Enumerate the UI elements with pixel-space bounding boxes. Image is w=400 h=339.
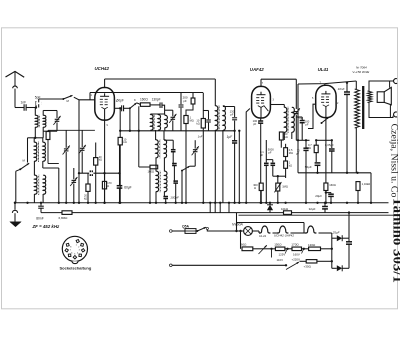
svg-text:pF: pF <box>268 150 271 154</box>
svg-text:1nF: 1nF <box>21 100 27 104</box>
svg-text:160Ω: 160Ω <box>148 169 155 173</box>
svg-text:170Ω: 170Ω <box>291 243 299 247</box>
oscillator grid line <box>48 129 95 131</box>
svg-text:1nF: 1nF <box>198 135 203 139</box>
rail screen supply <box>90 92 203 94</box>
wire K arm to resistor <box>137 103 141 105</box>
trimmer padder <box>194 140 196 148</box>
svg-text:kΩ: kΩ <box>99 158 102 162</box>
svg-text:UL41: UL41 <box>259 234 267 238</box>
svg-text:pF: pF <box>253 122 256 126</box>
AVC line <box>120 130 234 132</box>
coil L3 LW <box>34 175 37 194</box>
rail top down to IF2 <box>214 79 216 106</box>
rectifier diode upper <box>332 237 337 239</box>
wire UAF42 top to rail <box>260 79 262 86</box>
capacitor 100pF detector <box>260 118 262 121</box>
rectifier branch left <box>331 233 333 268</box>
speaker terminal C top <box>394 79 398 84</box>
antenna coil L1 primary-secondary <box>35 115 38 127</box>
svg-text:UCH42: UCH42 <box>95 66 110 71</box>
heater UL41 <box>259 226 270 233</box>
rail UL41 anode <box>298 81 356 84</box>
capacitor 32uF <box>324 203 326 207</box>
svg-text:MΩ: MΩ <box>190 118 194 122</box>
capacitor 5pF <box>35 101 37 108</box>
tap trimmer <box>270 248 272 250</box>
svg-text:MΩ: MΩ <box>307 146 311 150</box>
svg-text:pF: pF <box>305 122 308 126</box>
svg-text:ZF = 452 kHz: ZF = 452 kHz <box>32 224 61 229</box>
speaker terminal C bottom <box>394 112 398 117</box>
resistor 1MOhm <box>184 116 188 124</box>
svg-text:60μF: 60μF <box>124 185 131 189</box>
IF1 third winding <box>165 115 168 127</box>
wire speaker return <box>381 127 383 203</box>
resistor 150 Ohm <box>275 247 285 251</box>
node coil bottom <box>34 137 36 139</box>
svg-text:kΩ: kΩ <box>123 140 126 144</box>
trimmer capacitor T2 oscillator <box>65 130 67 148</box>
svg-text:70Ω: 70Ω <box>298 116 303 120</box>
svg-text:10kΩ: 10kΩ <box>281 207 289 211</box>
IF transformer 2 <box>215 106 218 130</box>
svg-text:50μF: 50μF <box>305 165 312 169</box>
svg-text:kΩ: kΩ <box>84 196 87 200</box>
svg-text:K: K <box>134 98 136 102</box>
supply line third rail <box>239 214 397 216</box>
wire K down to AVC <box>129 108 131 131</box>
B2 bus <box>41 212 389 214</box>
svg-text:kΩ: kΩ <box>285 135 288 139</box>
svg-text:MΩ: MΩ <box>289 151 293 155</box>
resistor 30 Ohm surge <box>300 260 307 262</box>
svg-text:kΩ: kΩ <box>196 121 199 125</box>
resistor 170 Ohm cathode <box>104 173 106 181</box>
svg-text:25μF: 25μF <box>332 231 340 235</box>
svg-text:50pF: 50pF <box>117 98 124 102</box>
variable dropper <box>253 248 262 250</box>
heater rail top <box>236 213 238 231</box>
mains line lower <box>172 264 286 266</box>
svg-text:80nF: 80nF <box>36 217 44 221</box>
switch below UL41 <box>321 122 323 124</box>
resistor 10kOhm AVC2 <box>202 93 204 119</box>
svg-text:130pF: 130pF <box>152 98 161 102</box>
tube UL41 <box>316 85 336 117</box>
reservoir capacitor 25uF <box>348 213 350 239</box>
wire heater link 2 <box>291 232 306 234</box>
oscillator coil upper <box>156 140 159 158</box>
svg-text:μF: μF <box>260 153 264 157</box>
svg-text:1: 1 <box>91 94 93 97</box>
svg-text:1,04kΩ: 1,04kΩ <box>362 182 371 186</box>
svg-text:125V: 125V <box>279 253 286 257</box>
rectifier diode lower <box>332 267 337 269</box>
resistor 20kOhm AVC <box>87 173 89 184</box>
wire heater to rectifier <box>319 232 332 234</box>
resistor 160 Ohm cathode UL41 <box>324 183 328 191</box>
svg-text:UL41: UL41 <box>318 67 329 72</box>
svg-text:20μF: 20μF <box>315 194 322 198</box>
svg-text:32μF: 32μF <box>309 207 316 211</box>
wire UAF42 cathode down <box>245 118 247 203</box>
svg-text:10nF: 10nF <box>338 87 345 91</box>
svg-text:2: 2 <box>337 102 339 105</box>
svg-text:Q5A: Q5A <box>182 224 190 228</box>
wire bus links <box>209 203 211 213</box>
wire band switch to ground bus <box>15 171 17 203</box>
trimmer IF1 <box>172 110 174 116</box>
resistor 0.7MOhm <box>315 140 317 145</box>
wire aux vertical <box>58 168 60 203</box>
switch K <box>129 107 131 109</box>
output transformer core <box>362 86 364 129</box>
mains terminal lower <box>170 264 173 267</box>
wire grid line to switch <box>39 98 63 100</box>
svg-text:3: 3 <box>273 98 275 101</box>
svg-text:130Ω: 130Ω <box>308 243 316 247</box>
output transformer primary <box>355 89 360 128</box>
wire UL41 cathode chain <box>325 118 327 184</box>
tube socket diagram <box>62 236 87 261</box>
coil L2 MW <box>34 142 37 161</box>
loudspeaker <box>377 92 384 103</box>
svg-text:V–150 W/2E: V–150 W/2E <box>352 70 370 74</box>
resistor 10kOhm UCH42 <box>119 108 121 137</box>
wire oscillator vertical <box>78 100 80 173</box>
svg-text:pF: pF <box>183 99 187 103</box>
svg-text:150Ω: 150Ω <box>274 243 282 247</box>
rail anode supply top <box>105 78 216 80</box>
capacitor 1nF antenna series <box>15 107 24 109</box>
IF transformer 1 <box>150 115 153 131</box>
svg-text:+30Ω: +30Ω <box>304 265 312 269</box>
rectifier diode to bus <box>269 203 271 205</box>
tap 160V <box>303 248 305 250</box>
wire to terminal bottom <box>390 116 393 118</box>
svg-text:Tamino 303/1: Tamino 303/1 <box>389 197 400 283</box>
capacitor 50pF plate <box>114 107 121 109</box>
band switch M1 <box>27 138 29 163</box>
resistor 6.8MOhm bus <box>62 211 72 215</box>
ground symbol <box>14 203 16 210</box>
wire to terminal top <box>390 80 394 82</box>
mains terminal upper <box>170 230 173 233</box>
wire UAF42 grid return <box>238 131 240 203</box>
resistor 20kOhm oscillator grid <box>95 143 97 158</box>
grid stopper UL41 <box>308 104 316 128</box>
node antenna-coil junction <box>35 106 37 108</box>
svg-text:UAF42: UAF42 <box>250 67 264 72</box>
svg-text:160V: 160V <box>293 252 300 256</box>
resistor 160 Ohm <box>140 103 150 107</box>
wire heater link <box>273 232 278 234</box>
wire UL41 plate top <box>324 84 326 86</box>
svg-text:100pF: 100pF <box>170 195 179 199</box>
capacitor 50pF grid UAF42 <box>208 111 210 120</box>
resistor 160 Ohm osc <box>150 165 158 169</box>
tube UCH42 <box>95 88 115 121</box>
capacitor padding osc 2 <box>172 163 177 165</box>
svg-text:110V: 110V <box>277 258 284 262</box>
resistor 170 Ohm <box>292 247 302 251</box>
svg-text:M: M <box>67 99 70 103</box>
svg-text:6,8MΩ: 6,8MΩ <box>59 216 69 220</box>
trimmer capacitor antenna <box>56 111 58 119</box>
oscillator coil lower <box>156 171 159 191</box>
capacitor 130pF IF1 <box>159 102 161 108</box>
heater UCH42 <box>277 226 288 233</box>
wire secondary bottom <box>369 103 390 118</box>
trimmer capacitor T3 <box>81 130 83 147</box>
chassis bus <box>15 202 389 204</box>
switch M2 antenna <box>62 98 64 100</box>
wire switch to UCH42 grid <box>74 97 95 100</box>
resistor 60 Ohm dropper <box>240 231 242 249</box>
capacitor 50uF cathode <box>315 153 317 162</box>
tap 125V <box>286 248 288 250</box>
svg-text:5: 5 <box>312 97 314 100</box>
wire UCH42 cathode down <box>104 120 106 203</box>
svg-text:UCH42 UAF42: UCH42 UAF42 <box>274 233 294 237</box>
capacitor 20uF cathode <box>325 191 327 193</box>
tube UAF42 <box>252 86 271 118</box>
wire aux 160ohm down <box>138 106 140 167</box>
wire lamp to heaters <box>252 230 259 232</box>
svg-text:160Ω: 160Ω <box>329 183 336 187</box>
antenna A1 <box>6 71 25 77</box>
capacitor 130pF IF2 <box>234 107 236 118</box>
resistor 130 Ohm <box>309 247 321 251</box>
resistor 300 Ohm <box>260 158 262 183</box>
wire B+ right vertical <box>370 173 372 203</box>
capacitor series oscillator <box>79 172 120 174</box>
svg-text:7: 7 <box>262 82 264 85</box>
voltage selector switch <box>285 264 287 266</box>
svg-text:M: M <box>23 159 26 163</box>
svg-text:160Ω: 160Ω <box>140 98 148 102</box>
switch mains upper <box>196 230 198 232</box>
resistor 400 Ohm screen <box>192 93 194 99</box>
trimmer capacitor T4 padder <box>73 168 75 179</box>
svg-text:pF: pF <box>230 113 234 117</box>
svg-text:kΩ: kΩ <box>289 163 292 167</box>
output transformer secondary <box>368 91 372 103</box>
wire secondary to speaker top <box>369 81 390 91</box>
trimmer IF3 <box>294 111 299 113</box>
svg-text:Sockelschaltung: Sockelschaltung <box>60 266 92 271</box>
switch osc <box>181 170 183 172</box>
wire UCH42 plate-top to rail <box>104 79 106 88</box>
rail UAF42 anode <box>261 78 296 80</box>
resistor 1.04kOhm field coil <box>357 173 359 182</box>
capacitor 100pF osc output <box>163 196 168 198</box>
heater UAF42 <box>305 226 316 233</box>
resistor 50kOhm osc <box>47 130 49 131</box>
svg-text:+220V: +220V <box>292 257 301 261</box>
svg-text:1μF: 1μF <box>227 135 234 139</box>
svg-text:1MΩ: 1MΩ <box>282 185 288 189</box>
IF transformer 3 <box>284 107 287 132</box>
B+ line <box>298 172 371 174</box>
capacitor 80nF bus <box>40 203 42 206</box>
svg-text:Ω: Ω <box>107 184 109 188</box>
capacitor padding osc 1 <box>171 149 176 151</box>
svg-text:Ω: Ω <box>254 186 256 190</box>
resistor 1kOhm <box>285 157 287 162</box>
capacitor padding osc 3 <box>173 180 178 182</box>
svg-text:Czeija, Nissl u. Co: Czeija, Nissl u. Co <box>388 124 399 198</box>
svg-text:60Ω: 60Ω <box>241 243 247 247</box>
capacitor 100pF IF3 secondary <box>300 120 305 122</box>
capacitor 70uF screen <box>305 140 307 148</box>
resistor 0.5MOhm <box>284 148 288 157</box>
svg-text:9: 9 <box>107 124 109 127</box>
resistor 10kOhm bus <box>284 211 292 215</box>
resistor 63kOhm <box>279 132 283 140</box>
volume potentiometer 1MOhm <box>277 176 279 183</box>
capacitor 60uF <box>117 185 123 187</box>
